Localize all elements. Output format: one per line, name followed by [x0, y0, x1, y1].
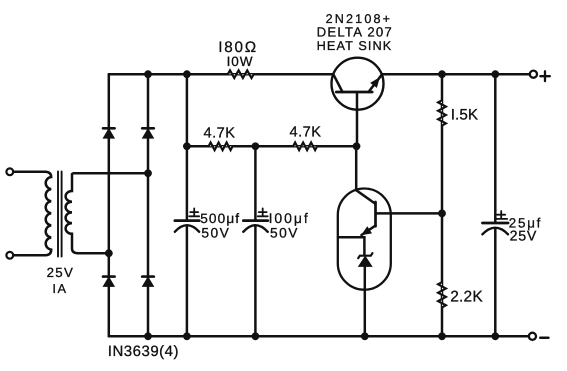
- wire output cap rail: [494, 74, 497, 336]
- capacitor C3 25uf curved plate: [482, 228, 508, 235]
- resistor R4 1.5K: [438, 100, 446, 125]
- node bottom rail / output cap: [491, 332, 499, 340]
- wire bridge right rail: [147, 74, 150, 336]
- terminal AC input top: [6, 168, 13, 175]
- svg-text:500μf: 500μf: [200, 211, 240, 226]
- node secondary bottom / bridge: [105, 249, 113, 257]
- node divider mid: [438, 210, 446, 218]
- node bottom rail / divider: [438, 332, 446, 340]
- svg-text:2N2108+: 2N2108+: [326, 12, 393, 26]
- node bottom rail / feed rail: [183, 332, 191, 340]
- node bottom rail / 100uf: [252, 332, 260, 340]
- wire bottom rail: [109, 335, 529, 338]
- svg-text:4.7K: 4.7K: [203, 126, 235, 142]
- node top rail / bridge right: [144, 70, 152, 78]
- capacitor C2 100uf top plate: [243, 219, 267, 222]
- terminal AC input bottom: [6, 252, 13, 259]
- diode D4 (bottom right): [142, 277, 154, 287]
- label output minus sign: [540, 336, 548, 339]
- wire 100uf rail: [254, 146, 257, 336]
- svg-text:HEAT SINK: HEAT SINK: [317, 39, 393, 53]
- svg-text:4.7K: 4.7K: [289, 125, 321, 141]
- transformer T1 secondary winding: [66, 174, 78, 253]
- transistor Q1 base lead: [356, 92, 359, 146]
- node bottom rail / zener: [361, 332, 369, 340]
- wire Q2 emitter to case and zener: [339, 237, 364, 255]
- resistor R1 180 ohm 10W: [228, 70, 254, 78]
- zener diode D5 cathode bar: [358, 253, 372, 258]
- svg-text:50V: 50V: [201, 226, 230, 241]
- label output plus sign: [540, 71, 550, 81]
- terminal output plus: [530, 71, 537, 78]
- wire secondary bottom to bridge: [79, 252, 109, 255]
- wire divider rail top: [441, 74, 444, 336]
- terminal output minus: [529, 333, 536, 340]
- transistor Q1 2N2108 circle: [332, 58, 384, 110]
- diode D2 (top right): [142, 128, 154, 138]
- node 4.7K row left: [183, 142, 191, 150]
- svg-text:I00μf: I00μf: [269, 210, 310, 226]
- resistor R2 4.7K: [209, 143, 233, 151]
- capacitor C2 100uf curved plate: [243, 225, 267, 232]
- transistor Q1 collector lead: [333, 74, 342, 92]
- svg-text:50V: 50V: [270, 226, 299, 241]
- node 4.7K row middle: [252, 142, 260, 150]
- wire Q2 base lead to divider: [376, 212, 443, 215]
- transistor Q1 base bar: [336, 91, 372, 94]
- capacitor C1 500uf top plate: [175, 219, 199, 222]
- wire top rail right section: [382, 73, 530, 76]
- capacitor C3 25uf top plate: [483, 222, 509, 225]
- wire feed rail x=187: [186, 74, 189, 220]
- resistor R3 4.7K: [293, 143, 317, 151]
- wire AC bottom lead: [13, 254, 45, 257]
- svg-text:2.2K: 2.2K: [450, 288, 483, 305]
- svg-text:25V: 25V: [510, 228, 537, 244]
- polarity + of C2: [258, 208, 268, 216]
- diode D1 (top left): [103, 128, 115, 138]
- svg-text:IN3639(4): IN3639(4): [108, 343, 179, 360]
- svg-text:IA: IA: [52, 281, 67, 296]
- svg-text:DELTA 207: DELTA 207: [317, 25, 393, 40]
- regulator package U1 oval outline: [338, 189, 391, 290]
- diode D3 (bottom left): [103, 277, 115, 287]
- node top rail / feed rail: [183, 70, 191, 78]
- zener diode D5 triangle: [359, 257, 371, 266]
- polarity + of C3: [497, 211, 508, 219]
- transformer T1 primary winding: [45, 172, 51, 256]
- node top rail / output cap: [491, 70, 499, 78]
- svg-text:I.5K: I.5K: [451, 107, 478, 124]
- svg-text:25V: 25V: [47, 265, 75, 280]
- svg-text:I0W: I0W: [227, 54, 254, 69]
- node Q1 base: [353, 142, 361, 150]
- wire bridge left rail: [108, 74, 111, 336]
- resistor R5 2.2K: [438, 282, 446, 307]
- wire Q1 base node to Q2 collector: [355, 146, 358, 190]
- node bottom rail / bridge right: [144, 332, 152, 340]
- wire AC top lead: [13, 171, 45, 174]
- capacitor C1 500uf curved plate: [175, 225, 199, 232]
- transistor Q1 emitter lead with arrow: [369, 75, 382, 92]
- node secondary top / bridge: [144, 169, 152, 177]
- wire 4.7K row: [187, 145, 357, 148]
- transformer T1 core: [58, 172, 62, 257]
- wire zener anode to bottom rail: [364, 266, 367, 336]
- wire top rail left section: [109, 73, 333, 76]
- node top rail / divider: [438, 70, 446, 78]
- wire secondary top to bridge: [73, 172, 148, 175]
- transistor Q2 emitter lead with arrow: [362, 226, 376, 235]
- polarity + of C1: [189, 208, 199, 216]
- transistor Q2 base bar: [374, 202, 377, 226]
- wire feed rail below C1: [186, 226, 189, 336]
- transistor Q2 collector lead: [356, 190, 375, 204]
